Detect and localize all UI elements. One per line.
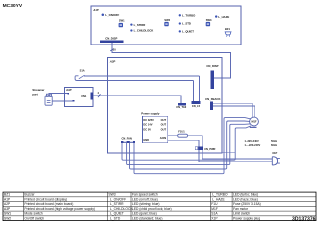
wire fan 4 [134,118,251,174]
svg-text:SW3: SW3 [108,193,115,197]
svg-text:L_CHILDLOCK: L_CHILDLOCK [134,29,154,33]
svg-text:L_STD: L_STD [110,216,121,220]
svg-text:SW2: SW2 [164,18,170,22]
svg-text:Printed circuit board (display: Printed circuit board (display) [24,197,67,201]
svg-text:DC 5V: DC 5V [143,128,151,132]
svg-text:F1U: F1U [211,202,218,206]
svg-text:LED (standard; blue): LED (standard; blue) [132,216,162,220]
svg-text:DC 14V: DC 14V [143,123,152,127]
limit switch S1A [75,68,199,80]
svg-text:L_STIRR: L_STIRR [110,202,124,206]
wire fan 1 [122,126,251,160]
switch SW1 [119,19,125,28]
svg-text:1~220-240V: 1~220-240V [245,139,259,143]
svg-text:GND: GND [143,138,149,142]
svg-text:A1P: A1P [4,197,11,201]
svg-text:SW3: SW3 [206,18,212,22]
svg-text:LED (on/off; blue): LED (on/off; blue) [132,197,158,201]
svg-text:L_CHILDLOCK: L_CHILDLOCK [110,207,133,211]
wire CN_PWR to plug X1P (lower) [199,150,272,162]
switch SW3 [206,18,212,26]
svg-text:50Hz: 50Hz [271,139,278,143]
svg-text:L_HAZE: L_HAZE [212,197,225,201]
svg-text:L_STD: L_STD [182,22,191,26]
svg-text:BZ1: BZ1 [225,27,230,31]
svg-text:S1A: S1A [80,68,85,72]
svg-text:A3P: A3P [65,88,72,92]
LED L_STIRR [130,23,132,25]
svg-text:Fan motor: Fan motor [233,207,249,211]
svg-text:CN_FAN: CN_FAN [122,136,133,140]
streamer plug [45,94,52,105]
svg-text:M1F: M1F [252,121,257,124]
svg-text:Streamer: Streamer [32,88,45,92]
fan motor M1F [250,117,259,126]
svg-text:Power supply: Power supply [141,112,160,116]
table column 3 descriptions [233,193,261,221]
wire A1P CN_DISP to A2P CN_DISP (10 ways) [112,43,230,78]
svg-text:Buzzer: Buzzer [24,193,35,197]
svg-text:ACIN: ACIN [160,136,166,140]
svg-text:Fan speed switch: Fan speed switch [132,193,158,197]
connector CN_L5 [192,101,201,104]
svg-text:MC30YV: MC30YV [3,3,23,9]
svg-text:On/Off switch: On/Off switch [24,216,44,220]
svg-text:A2P: A2P [109,60,116,64]
wire ACIN lower to CN_PWR [168,140,199,146]
svg-text:X1P: X1P [272,151,277,155]
svg-text:F1U1: F1U1 [178,130,185,134]
svg-text:CN_DISP: CN_DISP [105,37,117,41]
svg-text:X1P: X1P [211,216,218,220]
wire CN_PWR to plug X1P (upper) [202,150,272,159]
svg-text:CN_PWR: CN_PWR [204,147,215,151]
wire fan 2 [127,124,251,165]
svg-text:CN1: CN1 [81,94,87,98]
svg-text:CN_DISP: CN_DISP [206,64,218,68]
svg-text:LED (quiet; blue): LED (quiet; blue) [132,212,157,216]
LED L_CHILDLOCK [130,29,132,31]
svg-text:Mode switch: Mode switch [24,212,42,216]
table column 1 refs [4,193,11,221]
LED L_QUIET [179,30,181,32]
wire S1A to CN_L5 [194,76,200,101]
wire-count slash 10 [110,49,113,51]
svg-text:A1P: A1P [92,8,99,12]
table column 3 refs [211,193,228,221]
svg-text:3D137376: 3D137376 [292,216,316,222]
svg-text:L_TURBO: L_TURBO [212,193,228,197]
LED L_ON/OFF [102,13,105,16]
svg-text:1~~220-240V: 1~~220-240V [245,143,261,147]
table column 2 descriptions [132,193,172,221]
buzzer BZ1 [225,27,232,37]
node solder point upper [67,93,69,95]
svg-text:Printed circuit board (main bo: Printed circuit board (main board) [24,202,73,206]
wire streamer plug to A3P (upper) [49,93,68,96]
svg-text:L_TURBO: L_TURBO [182,13,196,17]
svg-text:LED (child proof lock; blue): LED (child proof lock; blue) [132,207,172,211]
svg-text:LED (turbo; blue): LED (turbo; blue) [233,193,258,197]
table column 2 refs [108,193,133,221]
svg-text:DC 325V: DC 325V [143,118,154,122]
svg-text:BZ1: BZ1 [4,193,10,197]
svg-text:LED (haze; blue): LED (haze; blue) [233,197,258,201]
svg-text:A2P: A2P [4,202,11,206]
parts table [3,192,316,221]
svg-text:Power supply plug: Power supply plug [233,216,260,220]
svg-text:Fuse (250V 3.15A): Fuse (250V 3.15A) [233,202,261,206]
svg-text:60Hz: 60Hz [271,143,278,147]
connector CN_PWR [195,147,198,150]
svg-text:S1A: S1A [211,212,218,216]
svg-text:OUT: OUT [161,128,167,132]
wire-count slash 4 [98,94,101,97]
svg-text:CN_L5: CN_L5 [192,104,201,108]
connector CN_TA0 [178,103,186,105]
svg-text:L_QUIET: L_QUIET [182,30,194,34]
svg-text:L_ON/OFF: L_ON/OFF [105,13,119,17]
table column 1 descriptions [24,193,95,221]
svg-text:SW1: SW1 [4,212,11,216]
svg-text:OUT: OUT [161,123,167,127]
LED L_HAZE [215,15,217,17]
wire CN1 to CN_TA0 [93,96,181,104]
svg-text:M1F: M1F [211,207,218,211]
svg-text:LED (stirring; blue): LED (stirring; blue) [132,202,159,206]
svg-text:part: part [32,93,37,97]
wire CN_FBACK bus to fan motor [213,103,255,117]
LED L_TURBO [179,14,181,16]
fan motor underline mark [250,126,257,128]
svg-text:CN_TA0: CN_TA0 [176,105,186,109]
svg-text:L_ON/OFF: L_ON/OFF [110,197,126,201]
svg-text:L_QUIET: L_QUIET [110,212,124,216]
PCB A1P (display board) [91,6,241,45]
svg-text:A3P: A3P [4,207,11,211]
PCB A3P (high voltage power supply) [65,88,94,107]
S1A blade [79,75,85,79]
wire stub along A2P bottom to plug riser [222,152,235,154]
svg-text:Printed circuit board (high vo: Printed circuit board (high voltage powe… [24,207,95,211]
PCB A2P (main board) [108,58,223,154]
switch SW2 [164,18,170,26]
wire ACIN upper to CN_PWR via fuse [168,136,203,147]
svg-text:SW2: SW2 [4,216,11,220]
svg-text:SW1: SW1 [119,19,125,23]
svg-text:CN_FBACK: CN_FBACK [205,97,220,101]
svg-text:Limit switch: Limit switch [233,212,250,216]
svg-text:OUT: OUT [161,118,167,122]
svg-text:L_STIRR: L_STIRR [134,23,146,27]
node solder point lower [73,100,75,102]
LED L_STD [179,22,181,24]
wire fan 3 [130,121,250,169]
svg-text:L_HAZE: L_HAZE [218,15,229,19]
wire streamer plug to A3P (lower) [52,100,73,102]
